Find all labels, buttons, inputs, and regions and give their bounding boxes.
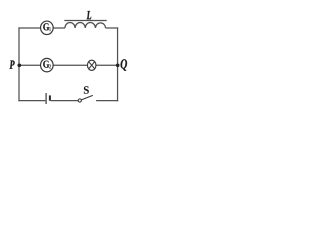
wire left vertical branch through P xyxy=(18,27,20,101)
wire top row: G1 to coil xyxy=(53,27,65,29)
wire bottom row: switch to corner xyxy=(96,100,118,102)
battery long plate xyxy=(45,93,47,104)
wire middle row: lamp to Q xyxy=(96,64,118,66)
battery short plate xyxy=(49,95,51,100)
switch arm xyxy=(81,95,93,100)
switch pivot circle xyxy=(78,99,81,102)
inductor core bar xyxy=(64,20,106,22)
node P dot xyxy=(17,63,21,67)
label Q xyxy=(121,59,127,71)
galvanometer G2 circle xyxy=(41,58,54,72)
galvanometer G1 circle xyxy=(41,21,54,35)
label S xyxy=(84,86,89,94)
wire bottom row: corner to battery xyxy=(18,100,45,102)
wire right vertical branch through Q xyxy=(117,27,119,101)
galvanometer G2 subscript 2 xyxy=(49,65,51,69)
lamp bulb ellipse xyxy=(87,60,96,70)
wire bottom row: battery to switch pivot xyxy=(51,100,79,102)
lamp cross diagonal 1 xyxy=(89,62,95,69)
node Q dot xyxy=(116,64,120,68)
wire middle row: P to G2 xyxy=(19,64,40,66)
wire middle row: G2 to lamp xyxy=(53,64,87,66)
label L xyxy=(87,11,92,19)
galvanometer G1 letter G xyxy=(43,23,49,30)
lamp cross diagonal 2 xyxy=(89,62,95,69)
galvanometer G1 subscript 1 xyxy=(49,27,51,31)
galvanometer G2 letter G xyxy=(43,61,49,68)
inductor coil (4 arcs) xyxy=(65,23,106,28)
wire top row: corner to G1 xyxy=(18,27,40,29)
label P xyxy=(10,61,15,69)
wire top row: coil to corner xyxy=(106,27,119,29)
